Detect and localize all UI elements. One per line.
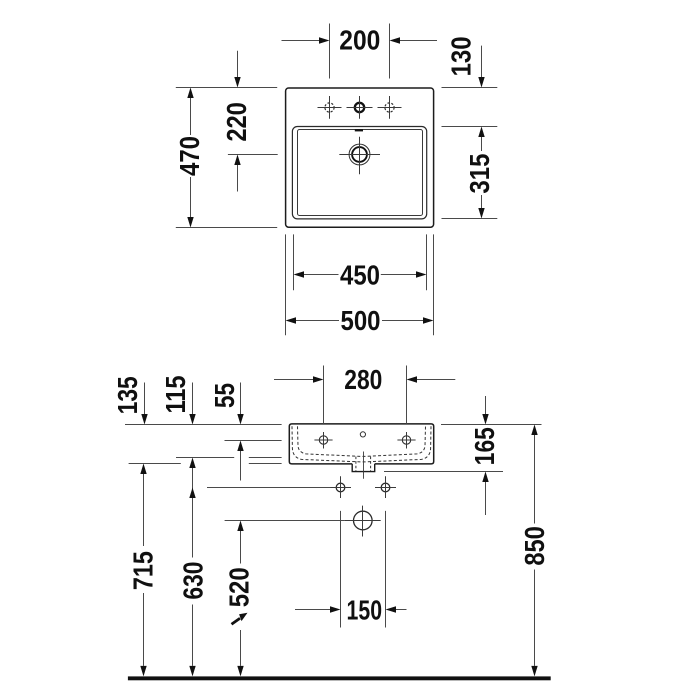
drain level tick [228, 154, 278, 156]
level line 55 [225, 440, 282, 442]
dim55 upper tail [240, 383, 242, 415]
dim450 line left [304, 274, 339, 276]
wall fixing hole right [381, 483, 390, 492]
drain center line [363, 452, 365, 479]
dim450 arrow left (points left) [294, 271, 305, 277]
hidden basin inner contour (dashed) [298, 426, 426, 456]
dim220 line upper [237, 51, 239, 77]
svg-text:470: 470 [174, 136, 205, 176]
level line 115 left [176, 457, 234, 459]
dim315 arrow up [478, 127, 484, 138]
dim150 extension line left [340, 511, 342, 628]
dim715 line lower [143, 593, 145, 666]
dim520 line upper [240, 531, 242, 564]
dim500 extension line right [433, 234, 435, 335]
dim315 line upper [481, 137, 483, 151]
dim150 arrow right (points left) [386, 606, 397, 612]
dim520 line lower [240, 630, 242, 666]
front faucet hole right crosshair [397, 432, 415, 449]
dim315 arrow down [478, 208, 484, 219]
dim200 tail left [282, 40, 320, 42]
svg-text:150: 150 [347, 595, 383, 626]
dim280 arrow left (points right) [313, 376, 324, 382]
dim150 tail left [295, 609, 330, 611]
dim630 line lower [192, 605, 194, 666]
drain outer circle [349, 144, 370, 165]
dim630 arrow up [189, 488, 195, 499]
siphon outlet circle [354, 511, 373, 530]
front faucet hole left crosshair [314, 432, 332, 449]
dim500 extension line left [285, 234, 287, 335]
dim200 extension line right [389, 24, 391, 79]
dim500 line right [382, 320, 423, 322]
level line rim top left [125, 424, 282, 426]
dim135 upper tail [144, 383, 146, 415]
dim850 line upper [534, 435, 536, 524]
svg-text:715: 715 [128, 551, 159, 590]
dim280 tail right [417, 379, 455, 381]
svg-text:55: 55 [209, 383, 240, 408]
dim200 extension line left [329, 24, 331, 79]
dim55 lower arrow tail [240, 451, 242, 481]
wall fixing hole right crosshair [375, 476, 396, 498]
dim500 line left [296, 320, 339, 322]
dim470 line upper [190, 98, 192, 135]
dim470 arrow up [187, 88, 193, 99]
svg-text:220: 220 [221, 102, 252, 141]
dim220 lower arrow tail [237, 165, 239, 192]
dim55 arrow up [237, 441, 243, 452]
svg-text:850: 850 [519, 526, 550, 566]
level line 135 left [129, 463, 181, 465]
level line fixing holes [207, 487, 331, 489]
dim220 arrow down [234, 77, 240, 88]
faucet hole left (dashed) [325, 103, 334, 112]
svg-text:135: 135 [112, 376, 143, 414]
drain crosshair [339, 137, 380, 175]
dim165 arrow down [482, 414, 488, 425]
basin rim outer contour [292, 127, 426, 219]
drain inner circle [352, 147, 367, 162]
dim520 leader arrowhead (NE) [239, 613, 247, 621]
dim450 extension line left [293, 234, 295, 290]
dim850 line lower [534, 570, 536, 666]
level line drain bottom right [384, 471, 503, 473]
washbasin front body [289, 424, 433, 464]
svg-text:115: 115 [160, 376, 191, 414]
drain fitting [352, 464, 375, 472]
faucet hole right crosshair [378, 96, 402, 119]
dim165 arrow up [482, 472, 488, 483]
svg-text:200: 200 [339, 25, 380, 56]
faucet hole middle crosshair [347, 96, 373, 119]
extension line sink top right [442, 87, 498, 89]
dim115 lower arrow tail [192, 468, 194, 509]
dim450 arrow right (points right) [416, 271, 427, 277]
dim200 arrow left (points right) [319, 37, 330, 43]
dim520 leader tail (diagonal) [232, 618, 241, 624]
dim500 arrow right (points right) [423, 317, 434, 323]
svg-text:280: 280 [344, 364, 382, 395]
level line rim top right [441, 424, 542, 426]
level line 135 right [249, 463, 282, 465]
dim115 upper tail [192, 383, 194, 415]
dim450 line right [381, 274, 416, 276]
extension line basin top right [442, 126, 498, 128]
floor line [128, 676, 551, 680]
hidden drain sides (dashed) [356, 457, 371, 472]
dim630 line upper [192, 498, 194, 558]
dim200 arrow right (points left) [390, 37, 401, 43]
extension line sink top left [176, 87, 277, 89]
level line 115 right [249, 457, 282, 459]
svg-text:450: 450 [340, 260, 380, 291]
extension line basin bottom right [442, 218, 498, 220]
wall fixing hole left crosshair [330, 476, 351, 498]
dim280 tail left [274, 379, 313, 381]
svg-text:520: 520 [224, 567, 255, 607]
level line siphon [225, 520, 345, 522]
dim520 arrow up [237, 521, 243, 532]
dim200 tail right [400, 40, 438, 42]
dim280 extension line right [406, 366, 408, 424]
dim115 arrow up [189, 458, 195, 469]
extension line sink bottom left [176, 227, 277, 229]
dim315 line lower [481, 195, 483, 208]
dim150 extension line right [385, 511, 387, 628]
dim850 arrow up [531, 425, 537, 436]
dim165 upper tail [485, 396, 487, 414]
dim715 line upper [143, 474, 145, 546]
dim130 arrow (points down) [478, 77, 484, 88]
svg-text:130: 130 [445, 36, 476, 76]
svg-text:630: 630 [178, 562, 209, 600]
dim850 arrow down [531, 666, 537, 677]
dim150 tail right [396, 609, 407, 611]
wall fixing hole left [336, 483, 345, 492]
dim715 arrow up [140, 464, 146, 475]
dim450 extension line right [426, 234, 428, 290]
dim55 arrow down [237, 414, 243, 425]
hidden basin outer contour (dashed) [292, 426, 431, 462]
siphon crosshair [345, 506, 381, 537]
dim470 arrow down [187, 217, 193, 228]
dim280 arrow right (points left) [407, 376, 418, 382]
dim715 arrow down [140, 666, 146, 677]
faucet hole right (dashed) [385, 103, 394, 112]
dim630 arrow down [189, 666, 195, 677]
dim520 arrow down [237, 666, 243, 677]
dim130 line [481, 46, 483, 77]
overflow hole front [360, 432, 365, 437]
svg-text:165: 165 [469, 427, 500, 465]
washbasin outer body (plan view) [286, 88, 434, 227]
dim150 arrow left (points right) [330, 606, 341, 612]
basin rim inner contour [298, 130, 423, 216]
dim135 arrow down [141, 414, 147, 425]
dim220 arrow up [234, 155, 240, 166]
overflow slot mark [355, 129, 363, 131]
dim115 arrow down [189, 414, 195, 425]
front faucet hole left [319, 436, 327, 444]
faucet hole middle [355, 103, 364, 112]
dim500 arrow left (points left) [286, 317, 297, 323]
faucet hole left crosshair [318, 96, 342, 119]
dim470 line lower [190, 177, 192, 217]
svg-text:315: 315 [464, 154, 495, 194]
front faucet hole right [402, 436, 410, 444]
svg-text:500: 500 [341, 305, 381, 336]
dim280 extension line left [323, 366, 325, 424]
dim165 lower arrow tail [485, 482, 487, 515]
